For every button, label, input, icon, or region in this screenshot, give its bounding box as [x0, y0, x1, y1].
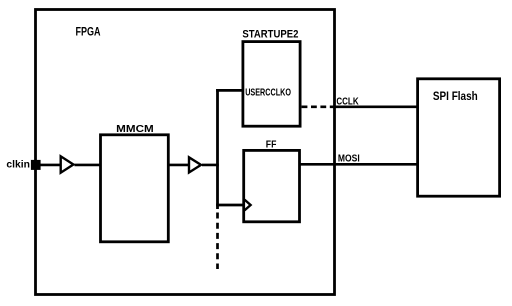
- wire buffer1 to MMCM: [75, 164, 101, 167]
- STARTUPE2 block: [243, 42, 300, 127]
- svg-text:MOSI: MOSI: [338, 154, 360, 165]
- svg-text:MMCM: MMCM: [116, 124, 154, 135]
- buffer1 (input clock buffer): [61, 156, 74, 172]
- svg-text:CCLK: CCLK: [336, 96, 359, 107]
- svg-text:FPGA: FPGA: [76, 24, 101, 38]
- wire FF MOSI to SPI Flash: [300, 163, 419, 166]
- MMCM block: [101, 135, 169, 242]
- svg-text:USERCCLKO: USERCCLKO: [245, 88, 291, 99]
- wire clkin pad to buffer1: [41, 164, 62, 167]
- buffer2 (global clock buffer): [189, 157, 201, 172]
- FPGA box: [36, 10, 335, 295]
- wire MMCM to buffer2: [168, 164, 189, 167]
- wire CCLK to SPI Flash: [333, 106, 419, 109]
- FF clock chevron: [245, 200, 251, 211]
- svg-text:STARTUPE2: STARTUPE2: [242, 29, 298, 41]
- SPI Flash block: [418, 79, 500, 196]
- dashed clock bus continuation: [216, 213, 219, 270]
- clkin pad (filled square on FPGA border): [31, 160, 41, 170]
- dashed internal CCLK wire: [302, 106, 333, 109]
- wire buffer2 to clock bus: [202, 164, 219, 167]
- wire bus to STARTUPE2 USERCCLKO: [216, 89, 243, 92]
- wire bus to FF clock: [216, 204, 244, 207]
- svg-text:FF: FF: [266, 140, 277, 151]
- svg-text:clkin: clkin: [6, 159, 30, 171]
- clock bus vertical wire: [216, 89, 219, 209]
- FF block: [244, 150, 300, 221]
- svg-text:SPI Flash: SPI Flash: [433, 89, 478, 103]
